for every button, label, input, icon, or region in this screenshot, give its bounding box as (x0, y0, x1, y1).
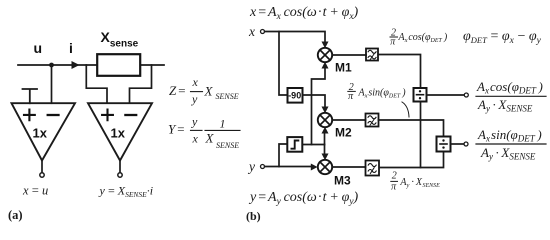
op-amp buffer 1x (right, current sense) (88, 103, 152, 160)
divider U1 (divide block) (414, 88, 427, 102)
wire: left sense tap to buffer2 + input (86, 65, 107, 103)
arrow into M3 top (322, 154, 329, 161)
svg-text:1x: 1x (111, 126, 126, 141)
node: output terminal 1 (464, 93, 468, 97)
arrow into M1 bottom (322, 62, 329, 69)
wire: from junction dot down to buffer1 - input (51, 65, 53, 103)
low-pass filter LPF1 (366, 49, 378, 61)
svg-text:X: X (204, 84, 214, 99)
svg-text:Z =: Z = (169, 83, 186, 98)
wire: right sense tap to buffer2 - input (130, 65, 152, 103)
resistor Xsense box (97, 54, 140, 76)
wire: LPF3 output to divider2 bottom (380, 153, 444, 168)
wire: y to M3 with arrow (265, 166, 311, 168)
wire: branch from x down to -90 block (279, 32, 287, 96)
node: output terminal 2 (464, 142, 468, 146)
label 2/pi Ay Xsense (391, 171, 440, 193)
arrow into M2 bottom (322, 127, 329, 134)
divider U2 (divide block) (437, 137, 451, 152)
svg-text:Xsense: Xsense (101, 29, 139, 50)
low-pass filter LPF3 (366, 161, 380, 176)
svg-text:2: 2 (392, 171, 397, 182)
svg-text:Y =: Y = (168, 122, 185, 137)
mixer M3 (318, 160, 332, 174)
svg-text:x: x (192, 132, 199, 146)
svg-text:-90: -90 (288, 91, 301, 101)
svg-text:Ax sin(φDET ): Ax sin(φDET ) (358, 88, 407, 100)
label 2/pi Ax cos(phiDET) (390, 28, 448, 48)
wire: reference to M3 top (324, 145, 326, 155)
equation Y = y/x 1/Xsense (168, 115, 240, 151)
leader curve from sin label to wire (402, 102, 409, 117)
label 2/pi Ax sin(phiDET) (348, 82, 406, 102)
svg-text:φDET = φx − φy: φDET = φx − φy (463, 29, 542, 46)
mixer M1 (318, 48, 332, 62)
svg-text:1: 1 (220, 117, 226, 131)
low-pass filter LPF2 (366, 114, 379, 127)
svg-text:(b): (b) (246, 209, 261, 223)
svg-text:Ay · X SENSE: Ay · X SENSE (399, 177, 440, 189)
wire: main current line left segment (18, 64, 96, 66)
wire: main current line right segment after Xsense (142, 64, 165, 66)
svg-text:y: y (191, 115, 198, 129)
wire: reference to M2 bottom (324, 132, 326, 145)
wire: divider2 output (452, 143, 464, 145)
svg-text:y: y (247, 159, 255, 174)
svg-text:Ax cos(φDET ): Ax cos(φDET ) (476, 79, 543, 96)
svg-text:Ay · XSENSE: Ay · XSENSE (480, 145, 536, 162)
svg-text:M1: M1 (335, 61, 352, 75)
wire: LPF1 to divider 1 (379, 55, 421, 89)
svg-text:π: π (391, 182, 397, 193)
output fraction Ax sin(phiDET) / Ay Xsense (476, 127, 546, 162)
arrow into M2 top (322, 107, 329, 114)
svg-text:y = Ay cos(ω · t + φy): y = Ay cos(ω · t + φy) (248, 190, 359, 207)
svg-text:x: x (192, 75, 199, 89)
wire: denominator drop from divider1 to Ay line (420, 103, 422, 168)
svg-text:X: X (205, 131, 215, 146)
svg-text:i: i (69, 40, 73, 56)
output fraction Ax cos(phiDET) / Ay Xsense (476, 79, 546, 114)
node: junction dot on u wire (49, 63, 54, 68)
arrow into M1 top (322, 42, 329, 49)
svg-text:(a): (a) (8, 208, 23, 222)
wire: reference riser to M1 bottom (312, 68, 326, 145)
svg-text:M2: M2 (335, 126, 352, 140)
wire: M1 to LPF1 (332, 54, 366, 56)
equation Z = x/y Xsense (169, 75, 239, 106)
mixer M2 (318, 113, 332, 127)
phase shifter -90 block (288, 88, 303, 103)
svg-text:SENSE: SENSE (216, 92, 239, 101)
wire: M2 to LPF2 (332, 119, 365, 121)
svg-text:x = u: x = u (22, 184, 48, 198)
svg-text:Ax cos(φDET ): Ax cos(φDET ) (398, 32, 448, 44)
svg-text:M3: M3 (334, 174, 351, 188)
wire: M3 to LPF3 (332, 166, 365, 168)
comparator / squarer block (287, 137, 302, 152)
svg-text:y: y (191, 92, 198, 106)
wire: squarer output to reference node (303, 144, 325, 146)
op-amp buffer 1x (left, voltage) (12, 103, 76, 160)
output stub and terminal of buffer 1 (41, 161, 43, 173)
svg-text:x: x (248, 24, 255, 39)
svg-text:x = Ax cos(ω · t + φx): x = Ax cos(ω · t + φx) (249, 5, 359, 22)
wire: x to M1 (265, 32, 325, 45)
wire: LPF2 to divider 2 (379, 120, 444, 137)
wire: divider1 output (428, 94, 465, 96)
svg-text:u: u (34, 40, 43, 56)
arrow: current direction i (72, 61, 80, 69)
svg-text:1x: 1x (33, 126, 48, 141)
wire: -90 output to M2 (303, 95, 325, 108)
wire: branch from y up to squarer block (279, 144, 287, 167)
svg-text:Ay · XSENSE: Ay · XSENSE (477, 97, 533, 114)
output stub and terminal of buffer 2 (119, 161, 121, 173)
svg-text:Ax sin(φDET ): Ax sin(φDET ) (477, 127, 542, 144)
svg-text:y = XSENSE·i: y = XSENSE·i (99, 184, 154, 200)
reference bar (T) at buffer1 + input (23, 89, 38, 103)
svg-text:SENSE: SENSE (216, 141, 239, 150)
